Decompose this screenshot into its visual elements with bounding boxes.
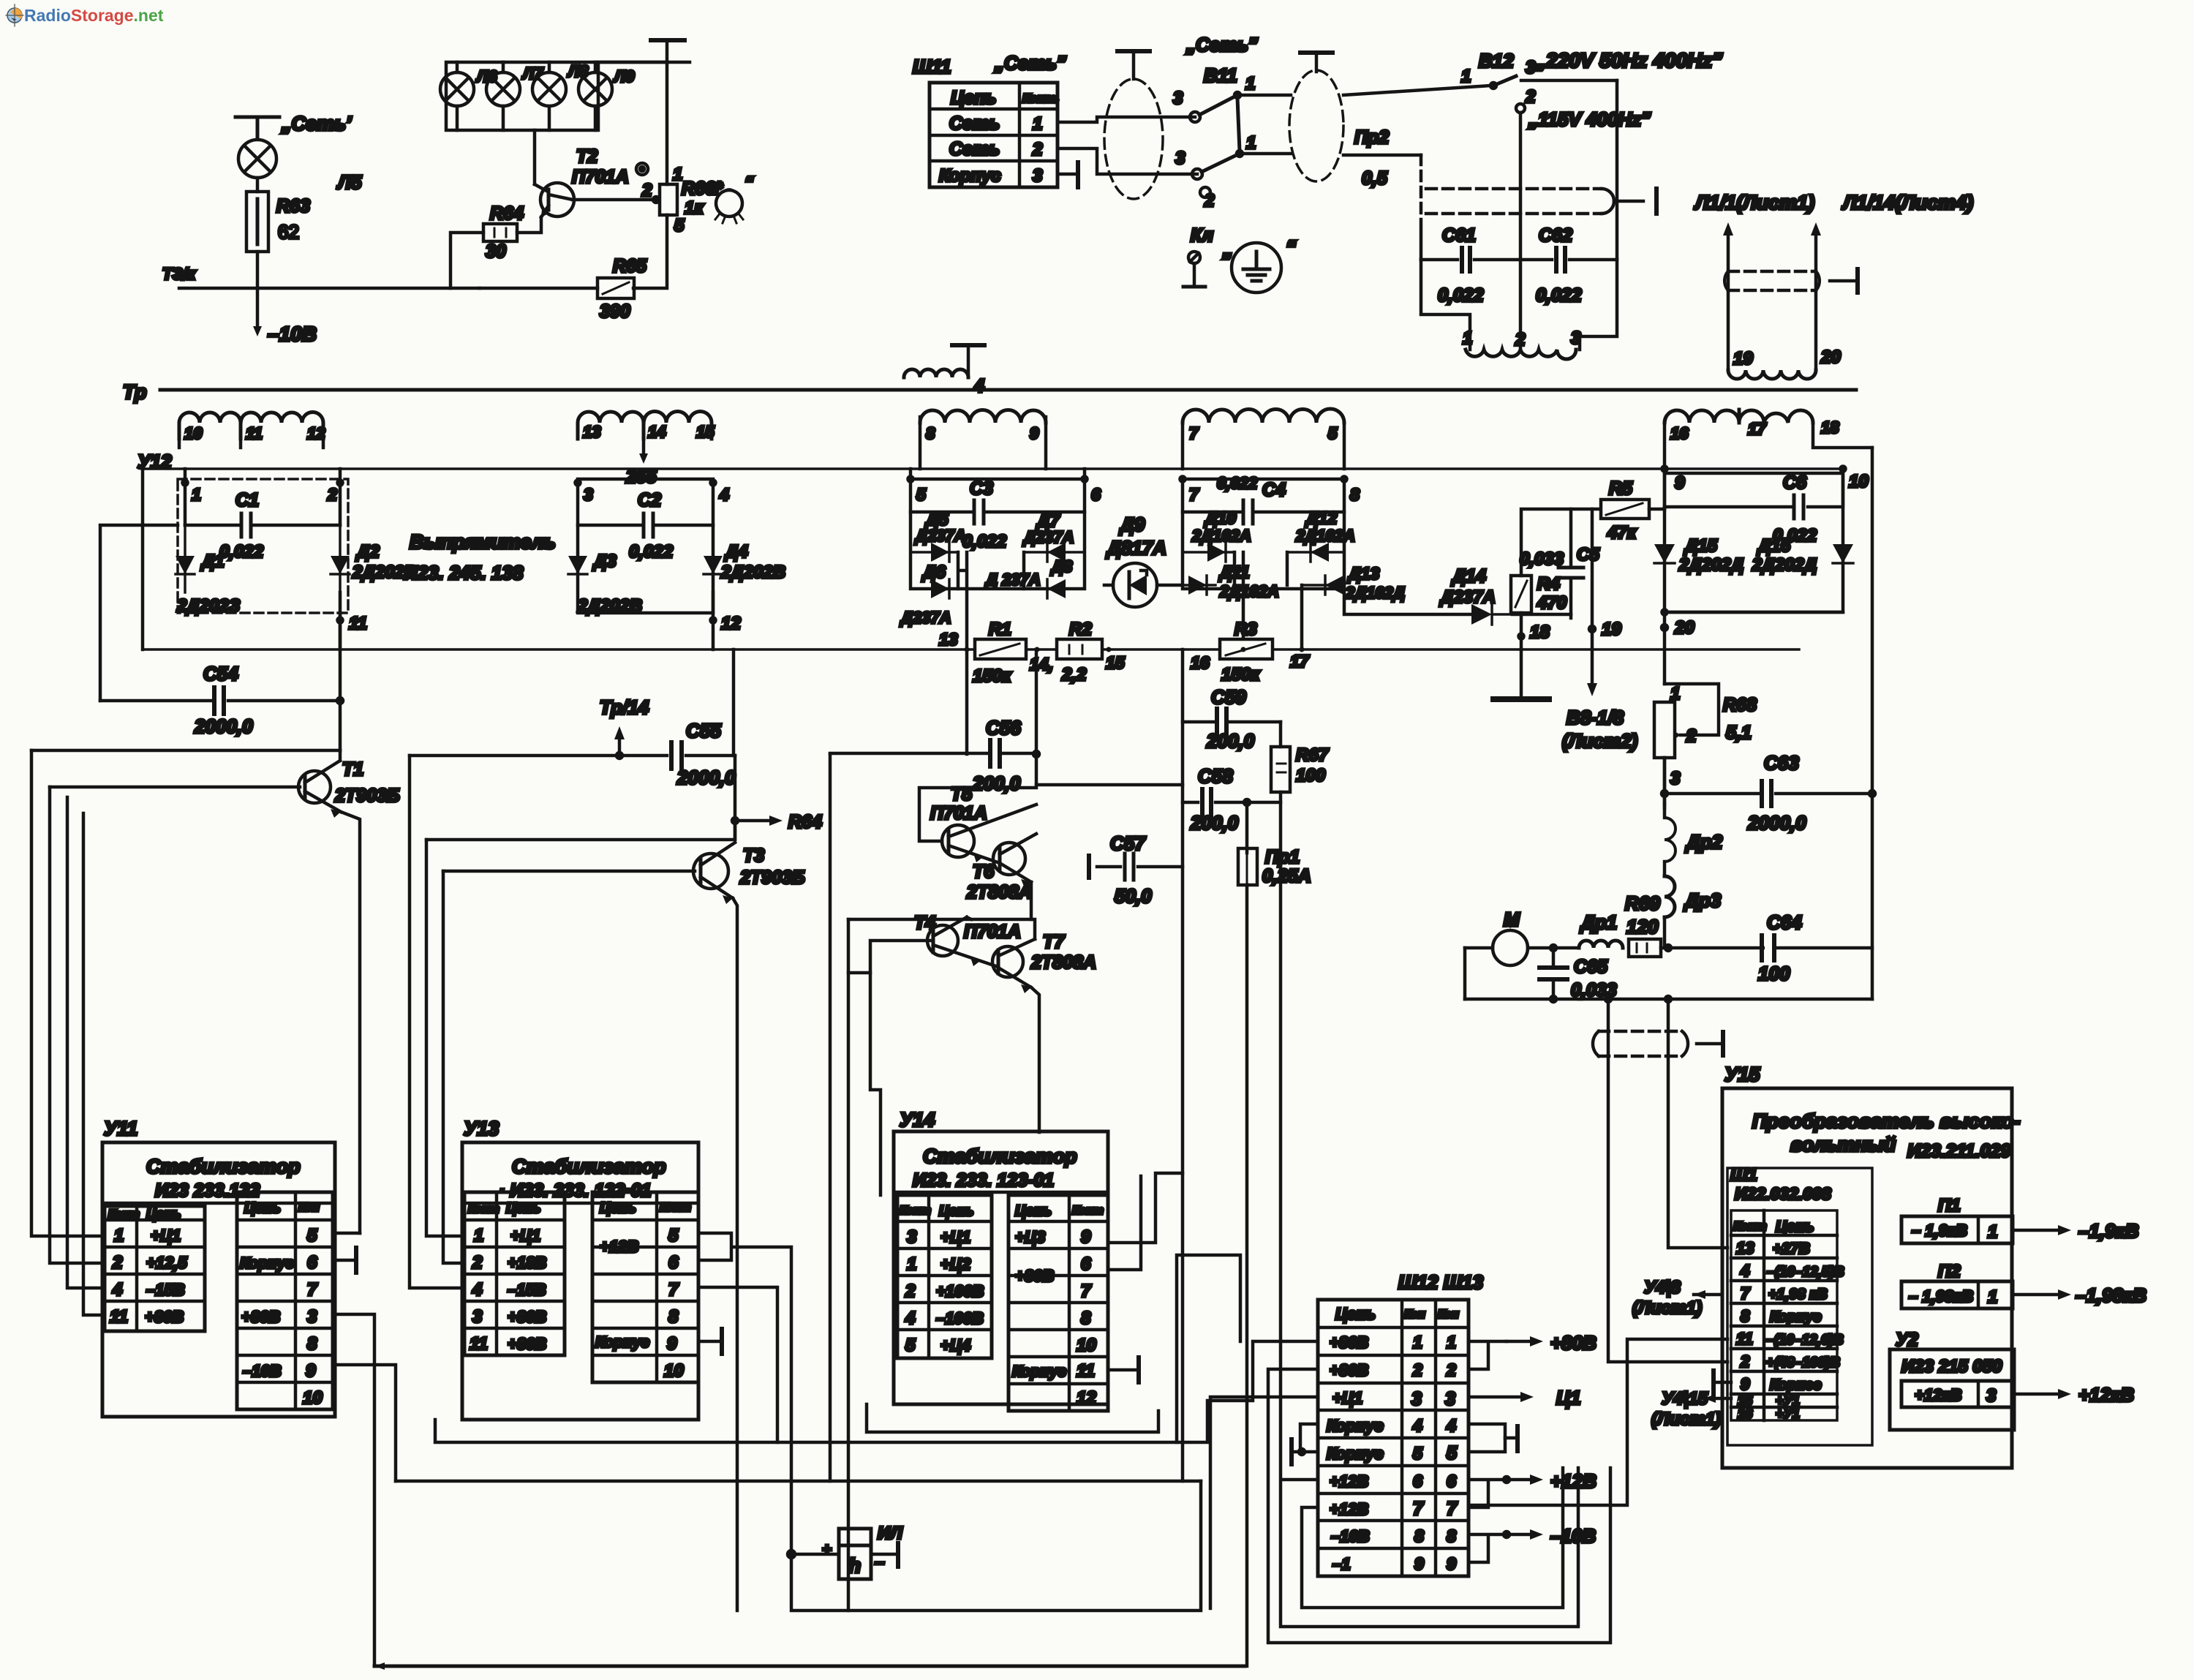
svg-text:8: 8 [1414,1526,1424,1545]
svg-text:Тр: Тр [123,381,146,403]
resistor R69 [1629,939,1661,957]
svg-text:Кл: Кл [1191,225,1213,246]
wire meter right to ground [871,1543,898,1567]
lamp bank rails [446,62,690,130]
svg-text:19: 19 [1602,619,1621,639]
arrow Tr/14 [614,726,625,758]
svg-text:200,0: 200,0 [1206,730,1255,752]
wire collector bus y1026 [31,749,340,753]
svg-text:8: 8 [926,424,935,442]
svg-text:17: 17 [1748,420,1767,438]
svg-text:+12кВ: +12кВ [2078,1384,2134,1406]
svg-text:С5: С5 [1577,545,1599,565]
wire bus y1972 [435,1341,1318,1442]
svg-text:1: 1 [1670,684,1680,704]
svg-text:10: 10 [664,1361,684,1381]
U11 right table [237,1192,333,1409]
svg-text:Преобразователь высоко-: Преобразователь высоко- [1752,1110,2020,1132]
node 19 arrow B8-1/8 [1587,509,1597,696]
wire pin1 to switch [1058,117,1195,122]
wire -10V arrow [253,288,262,336]
wire left rail to U11 row4 [67,797,105,1288]
svg-text:470: 470 [1537,593,1567,613]
svg-text:У15: У15 [1724,1063,1760,1085]
svg-text:5: 5 [916,485,927,504]
diode D12 [1287,543,1344,562]
U11 left table [105,1206,205,1331]
svg-text:9: 9 [306,1361,316,1381]
wire oval2 to switch B12 [1343,86,1490,95]
U14 right table [1009,1195,1108,1411]
diode D4 [704,525,723,592]
small lamp symbol right of R66 [715,189,743,223]
svg-text:3: 3 [307,1307,317,1327]
svg-text:18: 18 [1530,622,1550,642]
bracket rows1-2 right plus arrow +80V [1469,1336,1543,1369]
svg-text:2: 2 [1686,726,1697,746]
transistor T1 2T903B [298,750,360,1233]
capacitor C57 [1089,854,1183,880]
svg-text:2,2: 2,2 [1061,665,1087,685]
wire U11 +80V row to bottom bus [333,1314,374,1666]
wire left rail to U11 row1 [31,750,105,1236]
wire R66 bottom to R65 [633,215,667,288]
svg-text:С55: С55 [686,720,721,742]
svg-text:П1: П1 [1938,1196,1961,1216]
resistor R2 on rail B [1057,639,1102,659]
svg-text:+80В: +80В [1550,1332,1597,1354]
diode D5 horizontal [911,543,958,562]
svg-text:0,022: 0,022 [219,542,264,562]
svg-text:+У1: +У1 [1776,1406,1800,1421]
svg-text:+Ц1: +Ц1 [151,1227,181,1245]
wire block3 internal [958,552,1024,649]
svg-text:0,022: 0,022 [962,532,1007,551]
capacitor C4 [1183,500,1344,524]
capacitor C54 [100,688,340,714]
svg-text:С63: С63 [1764,752,1799,774]
svg-text:9: 9 [667,1334,677,1354]
U13 left table [464,1192,565,1355]
wire R64 branch riser [451,233,483,288]
svg-text:Т3: Т3 [743,845,764,866]
svg-text:У13: У13 [464,1118,499,1140]
svg-text:10: 10 [1077,1336,1096,1355]
svg-text:Ш11: Ш11 [913,56,951,78]
svg-text:С64: С64 [1767,911,1802,933]
diode D10 [1183,543,1234,562]
svg-text:8: 8 [307,1334,317,1354]
svg-text:R4: R4 [1537,574,1560,594]
node 12 below [711,592,716,649]
svg-text:И23.211.029: И23.211.029 [1907,1141,2010,1161]
svg-text:Т7: Т7 [1043,932,1065,952]
svg-text:Д237А: Д237А [914,527,965,545]
protective earth circle symbol [1232,243,1281,293]
svg-text:3: 3 [1986,1386,1997,1406]
svg-text:0,022: 0,022 [1438,285,1484,306]
svg-text:R68: R68 [1723,695,1757,715]
meter IL box [839,1529,871,1579]
svg-text:В11: В11 [1204,64,1237,86]
wire right of C56 node [1033,751,1183,785]
stabilizer U13 outer box [462,1142,698,1420]
svg-text:С6: С6 [1783,472,1807,493]
inner box around Ш1 [1727,1168,1872,1445]
svg-text:–10В: –10В [243,1362,282,1380]
capacitor C63 [1662,781,1875,806]
svg-text:+100В: +100В [936,1282,984,1300]
svg-text:5: 5 [1328,424,1338,442]
winding 4 with ground [904,345,984,377]
node 11 below [338,592,343,649]
wire D13 to D14 [1344,589,1471,614]
svg-text:11: 11 [246,424,263,442]
svg-text:Стабилизатор: Стабилизатор [512,1156,666,1178]
svg-text:50,0: 50,0 [1115,885,1152,907]
node 9 [1662,467,1667,510]
svg-text:С1: С1 [235,490,259,511]
svg-text:3: 3 [1526,58,1536,78]
svg-text:5: 5 [668,1226,679,1246]
node 10 [1841,467,1846,472]
svg-text:„Сеть’: „Сеть’ [281,113,352,135]
svg-text:390: 390 [600,301,630,322]
svg-text:R3: R3 [1234,619,1257,639]
wire T7 emitter down [1031,987,1039,1132]
svg-text:Цепь: Цепь [1015,1203,1052,1219]
svg-text:2: 2 [327,485,337,504]
transistor T5 P701A [942,805,1036,863]
svg-text:19: 19 [1733,349,1753,369]
svg-text:2Т903Б: 2Т903Б [739,867,805,888]
svg-text:6: 6 [1413,1472,1422,1491]
svg-text:+80В: +80В [1015,1267,1054,1285]
svg-text:1: 1 [1988,1287,1997,1307]
svg-text:11: 11 [349,614,367,633]
diode D15 [1654,509,1675,612]
svg-text:(Лист1): (Лист1) [1632,1298,1702,1318]
svg-text:7: 7 [1741,1284,1751,1303]
svg-text:5: 5 [1447,1443,1458,1464]
svg-text:–10В: –10В [1331,1527,1370,1545]
RadioStorage.net site logo [6,4,164,26]
svg-text:1: 1 [192,485,201,504]
wire T2 collector to R66 tap [573,197,659,203]
node 1 [183,469,188,525]
svg-text:Д10: Д10 [1204,508,1236,527]
svg-text:2Д202В: 2Д202В [720,562,785,582]
wire lamp bank to R66 pin1 [598,62,667,184]
capacitor C61 [1421,248,1520,271]
wire meter loop down [791,1481,1201,1611]
svg-text:С62: С62 [1539,225,1572,246]
svg-text:С4: С4 [1262,480,1286,500]
svg-text:„115V 400Hz”: „115V 400Hz” [1528,108,1651,130]
svg-text:–10В: –10В [268,323,317,345]
wire contact2 down [1519,113,1523,260]
svg-text:30: 30 [486,241,506,262]
svg-text:6: 6 [307,1253,317,1273]
lamp L5 [238,140,276,178]
svg-text:3: 3 [1175,148,1185,168]
svg-text:–1: –1 [1332,1555,1350,1573]
svg-text:9: 9 [1030,424,1039,442]
svg-text:С58: С58 [1198,765,1233,787]
svg-text:5,1: 5,1 [1726,723,1752,743]
arrow up left [1723,222,1733,370]
capacitor C55 [410,742,735,769]
P2 output box [1901,1281,2013,1308]
svg-text:Пр1: Пр1 [1265,847,1300,867]
arrow 255 at terminal 14 [639,439,648,464]
svg-text:0,25А: 0,25А [1262,866,1311,886]
svg-text:–100В: –100В [936,1309,984,1327]
cable shield oval below motor [1593,1031,1723,1056]
svg-text:14,: 14, [1030,655,1053,674]
svg-text:2: 2 [1740,1352,1750,1371]
unit У2 box [1890,1349,2014,1430]
svg-text:R65: R65 [613,256,647,276]
wire bottom-most bus [374,1662,1245,1670]
svg-text:100: 100 [1296,766,1326,786]
svg-text:М: М [1504,908,1520,930]
contact 2 circle [1200,187,1210,197]
wire C58 junction down to fuse [1244,799,1250,853]
svg-text:2Д202З: 2Д202З [176,596,240,616]
wires switch to oval2 [1237,95,1291,154]
svg-text:8: 8 [668,1307,679,1327]
svg-text:7: 7 [307,1280,318,1300]
wire T3 base line [443,870,695,873]
svg-text:Стабилизатор: Стабилизатор [146,1156,300,1178]
svg-text:„220V 50Hz 400Hz”: „220V 50Hz 400Hz” [1535,49,1722,72]
svg-text:ИЛ: ИЛ [878,1523,902,1543]
P1 output box [1901,1216,2013,1243]
svg-text:С56: С56 [986,717,1021,739]
wire fuse down [1245,885,1249,1666]
svg-text:И22.032.098: И22.032.098 [1735,1184,1831,1203]
resistor R5 [1601,500,1649,519]
svg-text:6: 6 [1447,1472,1456,1491]
svg-text:120: 120 [1626,916,1659,938]
wire R68 down [1663,758,1667,808]
wire R63 to node [256,252,260,288]
svg-text:2: 2 [905,1281,916,1301]
resistor R63 [246,192,268,252]
wire R69 to junction [1661,945,1872,951]
U13 right table [592,1192,698,1382]
svg-text:16: 16 [1670,424,1689,442]
svg-text:2: 2 [112,1253,123,1273]
svg-text:14: 14 [648,423,666,441]
wire U14 rows 6-8 bracket [1108,1176,1141,1270]
svg-text:Д13: Д13 [1347,564,1379,583]
svg-text:+Ц4: +Ц4 [940,1336,970,1355]
svg-text:Д237А: Д237А [1439,587,1496,607]
node 20 [1662,612,1667,684]
svg-text:4: 4 [1446,1416,1456,1435]
svg-text:Конт: Конт [468,1203,500,1216]
svg-text:2: 2 [472,1253,483,1273]
transistor T2 P701A [517,183,574,233]
svg-text:Д 237А: Д 237А [984,570,1041,589]
HV converter U15 outer box [1722,1088,2012,1468]
bottom wire of motor loop [1465,996,1872,1002]
winding 13-14-15 [578,412,712,440]
svg-text:R69: R69 [1625,892,1660,914]
svg-text:13: 13 [583,423,600,441]
svg-text:8: 8 [1081,1308,1091,1328]
svg-text:8: 8 [1447,1526,1456,1545]
svg-text:“: “ [744,173,753,193]
wire node12 down to C55 [732,649,736,756]
svg-text:1: 1 [1447,1333,1456,1352]
stabilizer U14 outer box [894,1131,1108,1404]
rectifier box 2 [578,479,713,613]
svg-text:+80В: +80В [1330,1333,1368,1352]
svg-text:7: 7 [1447,1499,1458,1519]
svg-text:3: 3 [472,1307,483,1327]
svg-text:С57: С57 [1110,832,1146,854]
svg-text:13: 13 [1736,1239,1754,1257]
svg-text:R1: R1 [989,619,1011,639]
svg-text:вольтный: вольтный [1790,1134,1896,1156]
svg-text:Цепь: Цепь [951,88,996,108]
transistor T3 2T903B [693,843,735,904]
svg-text:2000,0: 2000,0 [676,766,736,788]
resistor R65 [597,278,634,298]
svg-text:47к: 47к [1607,523,1637,543]
capacitor C59 [1183,709,1281,735]
svg-text:1: 1 [1988,1222,1997,1242]
svg-text:+12,5: +12,5 [146,1254,187,1272]
svg-text:Кон: Кон [298,1202,320,1214]
wire D15/D16 bottom join [1662,610,1844,615]
svg-text:R67: R67 [1296,745,1330,765]
node 3 [576,481,581,486]
svg-text:62: 62 [278,221,299,243]
winding 10-11-12 [179,413,323,448]
svg-text:+12В: +12В [1550,1470,1597,1492]
svg-text:5: 5 [674,216,685,236]
svg-text:3: 3 [1033,166,1043,186]
svg-text:Корпус: Корпус [1327,1444,1383,1463]
svg-text:2Т808А: 2Т808А [966,882,1032,903]
connector table Ш12/Ш13 [1318,1300,1469,1576]
svg-text:5: 5 [307,1226,317,1246]
arrow to R64 [732,815,783,840]
ground above lamp L5 [235,117,279,139]
svg-text:Ш1: Ш1 [1730,1165,1757,1185]
diode D7 horizontal [1024,543,1085,562]
svg-text:И23 215 050: И23 215 050 [1901,1357,2002,1376]
lamp L6 [440,62,474,130]
svg-text:Кон: Кон [1404,1308,1425,1321]
wire U13 row7 down [698,1287,777,1442]
wire R68 to C63 junction [1663,758,1667,805]
svg-text:2: 2 [1515,330,1526,350]
rectifier unit U12 dashed box [178,479,348,613]
node T3/k main wire [179,287,480,290]
wire R4 bottom / node 18 [1512,613,1571,649]
svg-text:Корпус: Корпус [595,1334,649,1351]
svg-text:11: 11 [470,1334,488,1354]
svg-text:+27В: +27В [1773,1240,1810,1257]
svg-text:С54: С54 [203,663,238,685]
capacitor C62 [1520,248,1617,271]
node 8 [1342,477,1347,482]
svg-text:8: 8 [1741,1307,1750,1325]
choke Dr3 [1665,876,1675,948]
svg-text:+12В: +12В [600,1238,638,1256]
svg-text:–15В: –15В [146,1281,185,1299]
svg-text:3: 3 [1571,328,1581,348]
svg-text:1: 1 [114,1226,124,1246]
ground above oval1 [1117,51,1150,79]
svg-text:Д12: Д12 [1305,508,1337,527]
diode D6 horizontal [911,579,958,598]
node 7 [1180,477,1185,482]
svg-text:9: 9 [1675,473,1685,493]
svg-text:2Т808А: 2Т808А [1030,952,1096,973]
rail A bus [143,467,1843,470]
wire row7 Ш12 left loop [1302,1468,1563,1608]
svg-text:15: 15 [696,423,715,441]
svg-text:Д1: Д1 [200,551,225,571]
wire U11 -10V row to bus [333,1365,396,1481]
ground right of U11 Корпус [333,1248,356,1273]
svg-text:Д15: Д15 [1684,536,1718,556]
svg-text:200,0: 200,0 [1190,812,1239,834]
rail B bus [143,648,1799,651]
motor M [1465,930,1579,965]
resistor R4 [1511,576,1531,613]
svg-text:9: 9 [1741,1375,1750,1393]
wire oval2 to fuse area [1343,155,1421,260]
svg-text:h: h [848,1554,861,1577]
svg-text:1: 1 [1033,114,1042,134]
wire left rail to U11 row2 [50,787,105,1263]
svg-text:7: 7 [1413,1499,1424,1519]
svg-text:Д4: Д4 [724,542,748,562]
svg-text:„Сеть”: „Сеть” [1185,34,1258,56]
svg-text:Д16: Д16 [1757,536,1791,556]
wire C54 left leg up [100,525,178,701]
svg-text:Стабилизатор: Стабилизатор [923,1145,1077,1167]
svg-text:(Лист2): (Лист2) [1562,730,1637,752]
switch B11 [1190,92,1243,179]
svg-text:И23. 245. 138: И23. 245. 138 [404,562,524,584]
wire T1 base line [50,786,300,789]
capacitor C6 [1665,469,1843,612]
svg-text:+80В: +80В [508,1335,546,1353]
svg-text:+1,98 кВ: +1,98 кВ [1768,1287,1828,1303]
svg-text:1: 1 [1461,67,1471,86]
svg-text:255: 255 [625,467,657,487]
svg-text:12: 12 [307,424,325,442]
wire left rail to U11 row11 [83,813,105,1315]
svg-text:2000,0: 2000,0 [1747,812,1806,834]
diode D1 [176,525,195,592]
indicator dot circle [636,163,648,175]
svg-text:20: 20 [1820,347,1841,367]
svg-text:15: 15 [1106,653,1126,672]
resistor R3 on rail B [1220,639,1273,659]
svg-text:Выпрямитель: Выпрямитель [410,531,556,553]
svg-text:– 1,98кВ: – 1,98кВ [1909,1287,1973,1306]
svg-text:П701А: П701А [572,167,629,187]
